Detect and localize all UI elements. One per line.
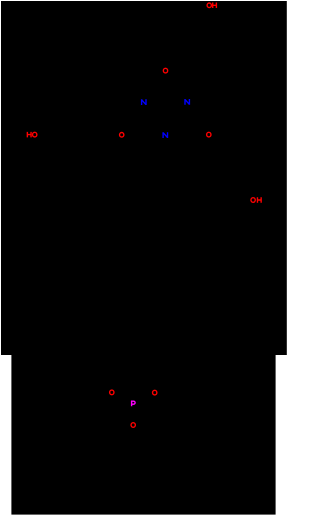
- atom label O (phosphoryl double-bond oxygen): [131, 423, 135, 428]
- atom label P (phosphorus): [132, 401, 136, 407]
- molecule 2 canvas (black background of bottom phosphate structure): [11, 355, 275, 515]
- atom label O (middle-right ether oxygen): [207, 132, 211, 137]
- atom label O (phosphate left ester oxygen): [110, 390, 114, 395]
- atom label N (middle ring nitrogen): [163, 132, 167, 138]
- atom label O (upper ether oxygen): [163, 68, 167, 73]
- atom label O (phosphate right ester oxygen): [153, 390, 157, 395]
- atom label OH (right phenol): O: [251, 198, 255, 203]
- atom label N (right ring nitrogen): [185, 99, 189, 105]
- atom label HO (left phenol): O: [33, 132, 37, 137]
- atom label N (left ring nitrogen): [142, 99, 146, 105]
- atom label OH (top phenol): O: [207, 3, 211, 8]
- molecule 1 canvas (black background of top macrocycle structure): [1, 1, 287, 355]
- atom label OH (top phenol): H: [213, 3, 217, 9]
- atom label HO (left phenol): H: [27, 132, 31, 138]
- atom label O (middle-left ether oxygen): [120, 133, 124, 138]
- atom label OH (right phenol): H: [257, 197, 261, 203]
